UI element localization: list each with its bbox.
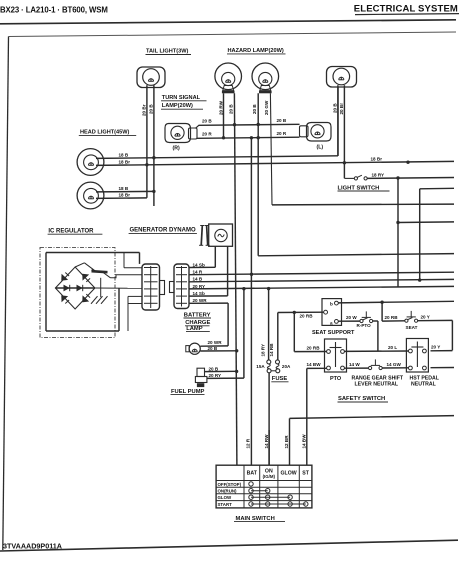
svg-text:20 RB: 20 RB xyxy=(300,313,314,318)
svg-text:20 B: 20 B xyxy=(252,104,257,114)
svg-text:12 BR: 12 BR xyxy=(284,435,289,449)
svg-text:20 W: 20 W xyxy=(346,315,357,320)
svg-text:START: START xyxy=(218,502,233,507)
svg-text:(R): (R) xyxy=(173,146,180,152)
svg-text:FUEL PUMP: FUEL PUMP xyxy=(171,389,205,395)
svg-text:14 Sb: 14 Sb xyxy=(193,262,205,267)
svg-text:BAT: BAT xyxy=(247,470,258,476)
svg-text:20 B: 20 B xyxy=(208,346,218,351)
svg-text:14 BW: 14 BW xyxy=(301,434,306,449)
svg-text:14 GW: 14 GW xyxy=(387,362,402,367)
svg-text:IC REGULATOR: IC REGULATOR xyxy=(48,228,94,234)
svg-text:SEAT: SEAT xyxy=(406,325,418,330)
svg-text:20 WR: 20 WR xyxy=(193,298,208,303)
svg-text:(L): (L) xyxy=(317,145,324,151)
svg-text:20 WR: 20 WR xyxy=(208,340,223,345)
svg-text:GENERATOR DYNAMO: GENERATOR DYNAMO xyxy=(130,228,196,234)
svg-text:ST: ST xyxy=(302,470,309,476)
svg-text:20A: 20A xyxy=(282,364,291,369)
svg-text:(IG/M): (IG/M) xyxy=(263,474,276,479)
svg-text:LAMP(20W): LAMP(20W) xyxy=(162,103,193,109)
svg-text:OFF(STOP): OFF(STOP) xyxy=(218,482,242,487)
svg-text:20 RY: 20 RY xyxy=(193,284,206,289)
svg-text:3TVAAAD9P011A: 3TVAAAD9P011A xyxy=(3,542,62,551)
svg-text:FUSE: FUSE xyxy=(272,376,288,382)
svg-text:20 Y: 20 Y xyxy=(431,345,440,350)
svg-text:14 RB: 14 RB xyxy=(269,343,274,357)
svg-text:ELECTRICAL SYSTEM: ELECTRICAL SYSTEM xyxy=(354,4,458,15)
svg-text:20 RB: 20 RB xyxy=(385,315,399,320)
svg-text:18 Br: 18 Br xyxy=(119,192,131,197)
svg-text:TAIL LIGHT(3W): TAIL LIGHT(3W) xyxy=(146,49,188,55)
svg-text:20 RW: 20 RW xyxy=(219,100,224,115)
svg-text:14 BW: 14 BW xyxy=(307,362,322,367)
svg-text:BATTERY: BATTERY xyxy=(184,312,211,318)
svg-text:BX23 · LA210-1 · BT600, WSM: BX23 · LA210-1 · BT600, WSM xyxy=(0,5,108,14)
svg-text:20 B: 20 B xyxy=(202,119,212,124)
svg-text:20 B: 20 B xyxy=(277,118,287,123)
svg-text:HEAD LIGHT(45W): HEAD LIGHT(45W) xyxy=(80,130,130,136)
svg-text:14 W: 14 W xyxy=(349,362,360,367)
svg-text:SEAT SUPPORT: SEAT SUPPORT xyxy=(312,330,355,336)
svg-text:b: b xyxy=(330,301,333,306)
svg-text:LEVER NEUTRAL: LEVER NEUTRAL xyxy=(355,382,399,388)
svg-text:14 B: 14 B xyxy=(193,277,203,282)
svg-text:20 Y: 20 Y xyxy=(421,315,430,320)
svg-text:20 R: 20 R xyxy=(277,131,287,136)
svg-text:20 B: 20 B xyxy=(148,104,153,114)
svg-text:20 B: 20 B xyxy=(209,366,219,371)
svg-text:14 R: 14 R xyxy=(193,270,203,275)
svg-text:TURN SIGNAL: TURN SIGNAL xyxy=(162,95,201,101)
svg-text:SAFETY SWITCH: SAFETY SWITCH xyxy=(338,396,385,402)
svg-text:18 Br: 18 Br xyxy=(119,159,131,164)
svg-text:20 B: 20 B xyxy=(332,103,337,113)
svg-text:NEUTRAL: NEUTRAL xyxy=(411,382,437,388)
svg-text:HAZARD LAMP(20W): HAZARD LAMP(20W) xyxy=(228,48,284,54)
svg-text:20 GW: 20 GW xyxy=(264,100,269,115)
svg-text:18 B: 18 B xyxy=(119,152,129,157)
svg-text:ON(RUN): ON(RUN) xyxy=(218,489,238,494)
svg-text:20 R: 20 R xyxy=(202,132,212,137)
svg-text:20 Br: 20 Br xyxy=(141,104,146,116)
svg-text:18 Br: 18 Br xyxy=(371,156,383,161)
svg-text:18 RY: 18 RY xyxy=(372,173,385,178)
svg-text:PTO: PTO xyxy=(330,376,342,382)
svg-text:18 B: 18 B xyxy=(119,186,129,191)
svg-text:12 R: 12 R xyxy=(246,438,251,448)
svg-text:20 RB: 20 RB xyxy=(307,345,321,350)
svg-text:15A: 15A xyxy=(256,364,265,369)
svg-text:14 RW: 14 RW xyxy=(264,434,269,449)
svg-text:18 RY: 18 RY xyxy=(260,344,265,357)
svg-text:RANGE GEAR SHIFT: RANGE GEAR SHIFT xyxy=(352,375,404,381)
svg-text:20 B: 20 B xyxy=(229,104,234,114)
svg-text:20 Br: 20 Br xyxy=(339,103,344,115)
svg-text:MAIN SWITCH: MAIN SWITCH xyxy=(236,516,275,522)
svg-text:14 Sb: 14 Sb xyxy=(193,291,205,296)
svg-text:HST PEDAL: HST PEDAL xyxy=(410,375,440,381)
svg-text:a: a xyxy=(330,321,333,326)
svg-text:20 RY: 20 RY xyxy=(209,373,222,378)
svg-text:GLOW: GLOW xyxy=(281,470,297,476)
svg-text:LIGHT SWITCH: LIGHT SWITCH xyxy=(338,185,380,191)
svg-text:GLOW: GLOW xyxy=(218,495,233,500)
svg-text:R-PTO: R-PTO xyxy=(357,323,372,328)
svg-text:20 L: 20 L xyxy=(388,345,397,350)
